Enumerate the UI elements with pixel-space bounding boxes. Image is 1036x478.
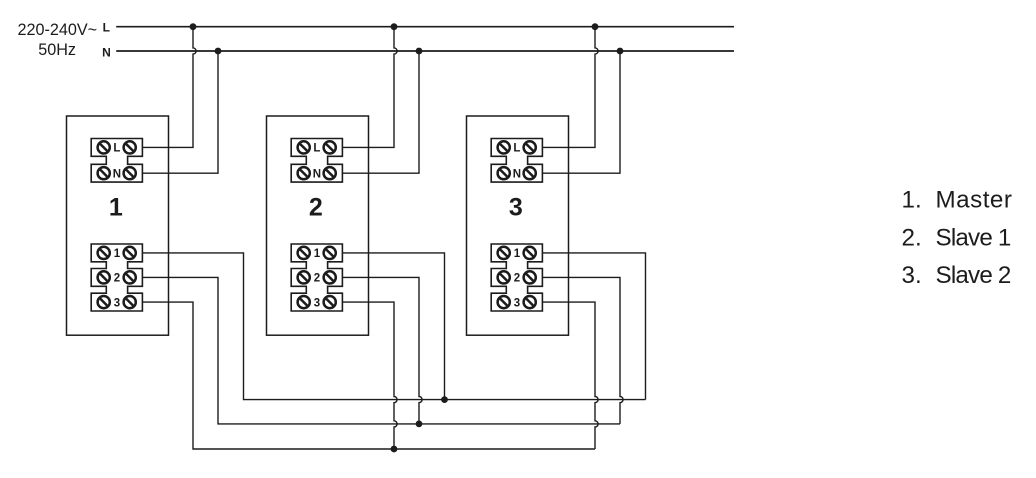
wire terminal1 box 3 (riser from net1) <box>542 253 645 400</box>
svg-text:Slave 1: Slave 1 <box>936 225 1011 252</box>
svg-text:3: 3 <box>114 297 120 309</box>
L supply bus wire <box>116 26 734 28</box>
screw terminal N-left box 1 <box>98 167 110 179</box>
screw terminal N-right box 3 <box>524 167 536 179</box>
N supply bus wire <box>116 50 734 52</box>
device box 2 (Slave 1) <box>267 116 369 335</box>
svg-text:2: 2 <box>114 273 120 285</box>
1/2/3 terminal strip box 3 <box>491 244 542 311</box>
L/N terminal strip box 2 <box>291 139 342 183</box>
svg-text:Master: Master <box>936 187 1013 214</box>
screw terminal L-left box 2 <box>298 141 310 153</box>
1/2/3 terminal strip box 1 <box>91 244 142 311</box>
screw terminal L-right box 2 <box>324 141 336 153</box>
svg-text:2: 2 <box>314 273 320 285</box>
screw terminal 3-left box 3 <box>498 296 510 308</box>
wire terminal3 box 2 (taps net3, hops over net1 and net2) <box>342 302 397 449</box>
screw terminal 1-left box 3 <box>498 247 510 259</box>
screw terminal 3-right box 2 <box>324 296 336 308</box>
wire terminal2 box 2 (taps net2, hops over net1) <box>342 277 422 424</box>
junction dot net2 box 2 <box>416 421 423 428</box>
screw terminal 2-left box 3 <box>498 271 510 283</box>
net1 bus wire: box1 terminal1 down to bus, across to box3 riser <box>142 253 645 400</box>
screw terminal 2-right box 1 <box>124 271 136 283</box>
wire L box 3 (to L bus, hops over N bus) <box>542 27 598 148</box>
screw terminal 1-right box 3 <box>524 247 536 259</box>
svg-text:L: L <box>513 143 520 155</box>
L/N terminal strip box 3 <box>491 139 542 183</box>
junction dot net1 box 2 <box>441 396 448 403</box>
L/N terminal strip box 1 <box>91 139 142 183</box>
svg-text:N: N <box>313 168 321 180</box>
wire N box 2 (to N bus) <box>342 51 419 173</box>
wire L box 2 (to L bus, hops over N bus) <box>342 27 397 148</box>
device box 3 (Slave 2) <box>467 116 569 335</box>
screw terminal 1-right box 2 <box>324 247 336 259</box>
svg-text:L: L <box>103 20 110 34</box>
screw terminal L-right box 3 <box>524 141 536 153</box>
screw terminal 3-left box 1 <box>98 296 110 308</box>
screw terminal N-right box 2 <box>324 167 336 179</box>
wire terminal3 box 3 (riser from net3, hops over net1 and net2) <box>542 302 598 449</box>
screw terminal L-right box 1 <box>124 141 136 153</box>
svg-text:220-240V~: 220-240V~ <box>17 21 97 39</box>
svg-text:3.: 3. <box>902 262 922 289</box>
svg-text:N: N <box>102 46 111 60</box>
svg-text:2.: 2. <box>902 225 922 252</box>
screw terminal 2-right box 2 <box>324 271 336 283</box>
wire N box 1 (to N bus) <box>142 51 218 173</box>
svg-text:1: 1 <box>114 248 121 260</box>
screw terminal N-left box 2 <box>298 167 310 179</box>
wire terminal1 box 2 (taps net1) <box>342 253 444 400</box>
svg-text:3: 3 <box>314 297 320 309</box>
svg-text:3: 3 <box>509 194 523 222</box>
screw terminal 1-right box 1 <box>124 247 136 259</box>
screw terminal 1-left box 2 <box>298 247 310 259</box>
svg-text:2: 2 <box>514 273 520 285</box>
svg-text:N: N <box>513 168 521 180</box>
junction dot net3 box 2 <box>391 446 398 453</box>
net2 bus wire: box1 terminal2 down to bus, across to box3 riser <box>142 277 620 424</box>
screw terminal 1-left box 1 <box>98 247 110 259</box>
screw terminal L-left box 3 <box>498 141 510 153</box>
junction dot N box 3 <box>617 48 624 55</box>
junction dot L box 2 <box>391 23 398 30</box>
device box 1 (Master) <box>67 116 169 335</box>
screw terminal N-left box 3 <box>498 167 510 179</box>
svg-text:L: L <box>313 143 320 155</box>
wire terminal2 box 3 (riser from net2, hops over net1) <box>542 277 623 424</box>
svg-text:Slave 2: Slave 2 <box>936 262 1011 289</box>
net3 bus wire: box1 terminal3 down to bus, across to box3 riser <box>142 302 595 449</box>
junction dot L box 1 <box>190 23 197 30</box>
screw terminal 3-left box 2 <box>298 296 310 308</box>
svg-text:1: 1 <box>514 248 521 260</box>
screw terminal 3-right box 3 <box>524 296 536 308</box>
screw terminal 2-left box 2 <box>298 271 310 283</box>
wire N box 3 (to N bus) <box>542 51 620 173</box>
svg-text:2: 2 <box>309 194 323 222</box>
svg-text:L: L <box>113 143 120 155</box>
screw terminal L-left box 1 <box>98 141 110 153</box>
svg-text:1: 1 <box>109 194 123 222</box>
1/2/3 terminal strip box 2 <box>291 244 342 311</box>
svg-text:50Hz: 50Hz <box>38 41 76 59</box>
screw terminal 2-right box 3 <box>524 271 536 283</box>
screw terminal N-right box 1 <box>124 167 136 179</box>
junction dot N box 2 <box>416 48 423 55</box>
screw terminal 2-left box 1 <box>98 271 110 283</box>
svg-text:1.: 1. <box>902 187 922 214</box>
junction dot L box 3 <box>592 23 599 30</box>
svg-text:N: N <box>113 168 121 180</box>
svg-text:1: 1 <box>314 248 321 260</box>
wire L box 1 (to L bus, hops over N bus) <box>142 27 196 148</box>
svg-text:3: 3 <box>514 297 520 309</box>
screw terminal 3-right box 1 <box>124 296 136 308</box>
junction dot N box 1 <box>215 48 222 55</box>
